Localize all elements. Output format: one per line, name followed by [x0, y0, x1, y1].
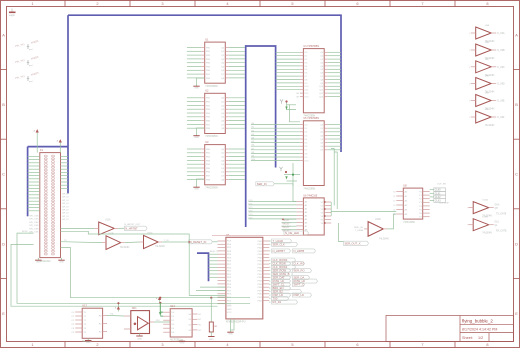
svg-text:74HC4050: 74HC4050: [403, 221, 415, 224]
svg-text:U14: U14: [170, 304, 175, 308]
gate U11B buffer: [102, 233, 130, 249]
svg-text:GP_IO: GP_IO: [62, 206, 69, 208]
svg-text:RXI: RXI: [156, 320, 160, 322]
wire long net A: [17, 231, 250, 303]
svg-text:U9D: U9D: [485, 76, 490, 78]
IC U4 74HC595: [276, 45, 341, 118]
bus ABUS left: [28, 15, 68, 216]
svg-text:U9F: U9F: [485, 109, 490, 111]
svg-text:GND: GND: [227, 309, 232, 311]
ground U7: [227, 330, 233, 336]
svg-text:GP_IO: GP_IO: [62, 216, 69, 218]
junction U14 feed: [159, 302, 163, 317]
svg-text:GND: GND: [137, 339, 142, 341]
svg-text:O_U9F: O_U9F: [497, 117, 505, 119]
svg-text:N_HRTBT_OUT: N_HRTBT_OUT: [124, 224, 141, 226]
wire U4 to U5 link: [280, 99, 300, 122]
svg-text:O_U9C: O_U9C: [497, 67, 505, 69]
wire X1 to U11A: [61, 227, 95, 229]
svg-text:N_HRTBT: N_HRTBT: [273, 249, 286, 253]
wire U1 gnd: [197, 78, 205, 84]
svg-text:SER_CLK: SER_CLK: [273, 242, 285, 246]
svg-text:8: 8: [486, 1, 488, 6]
svg-text:T_IN: T_IN: [164, 240, 169, 242]
svg-text:VCC: VCC: [227, 312, 232, 314]
connector X1 DIN41612: [40, 148, 61, 263]
net flag TX0: [269, 297, 288, 301]
svg-text:GP_IO: GP_IO: [62, 203, 69, 205]
svg-text:GND: GND: [194, 88, 199, 90]
svg-text:GP_IO: GP_IO: [62, 219, 69, 221]
svg-text:T_DATA: T_DATA: [355, 229, 364, 232]
svg-text:GH0: GH0: [495, 204, 500, 206]
IC U2 74HC595: [187, 89, 245, 138]
svg-text:GND: GND: [59, 262, 64, 264]
svg-text:SER_OUT_X: SER_OUT_X: [345, 241, 361, 245]
net flag T_LOAD: [269, 239, 291, 243]
bus CBUS middle: [246, 46, 276, 227]
wire long net B: [11, 244, 218, 306]
svg-text:GND: GND: [227, 306, 232, 308]
svg-text:N_RESET_IN: N_RESET_IN: [190, 240, 207, 244]
svg-text:GND: GND: [86, 342, 91, 344]
net labels X1 left lower pins: [29, 216, 39, 234]
net flag N_HRTBT_OUT: [269, 249, 315, 253]
supply +A right: [57, 139, 62, 153]
svg-text:74LS04N: 74LS04N: [155, 246, 165, 248]
svg-text:E: E: [2, 311, 5, 316]
wire U7 ground: [231, 319, 235, 330]
wire stub rows: [196, 287, 226, 290]
svg-text:ATMEGA328P-PU: ATMEGA328P-PU: [226, 321, 246, 324]
wire U3 gnd: [197, 179, 205, 185]
ground U1: [193, 84, 199, 90]
svg-text:U10B: U10B: [482, 217, 488, 219]
net flag U8 out2: [430, 192, 446, 196]
junction cluster below U5: [279, 163, 300, 186]
svg-text:U12: U12: [82, 304, 87, 308]
gate U9C inverter: [469, 59, 505, 77]
wire SER line U6 to U8: [331, 210, 396, 212]
wire bundle U6 outputs: [331, 149, 344, 242]
svg-text:Sheet:: Sheet:: [462, 336, 473, 340]
net flag U8 out3: [430, 195, 446, 199]
ground U13: [136, 334, 142, 341]
svg-text:U6 74HC165: U6 74HC165: [303, 194, 317, 197]
svg-text:SPI_CSX: SPI_CSX: [29, 219, 39, 221]
supply +5V U13: [115, 302, 120, 311]
svg-text:SPI_CSX: SPI_CSX: [29, 228, 39, 230]
net flag SER_OUT: [344, 241, 369, 245]
svg-text:A: A: [2, 33, 5, 38]
svg-text:C: C: [2, 172, 5, 177]
svg-text:AD[0..7]: AD[0..7]: [210, 250, 218, 253]
svg-text:6: 6: [356, 1, 358, 6]
wire bundle data lines to U6: [249, 200, 297, 220]
net flag U8 out4: [430, 199, 446, 203]
wire X1 to U11B input: [61, 240, 103, 243]
svg-text:GP_IO: GP_IO: [62, 213, 69, 215]
svg-text:U7: U7: [226, 233, 230, 237]
svg-text:A: A: [515, 33, 518, 38]
svg-text:flying_bubble_2: flying_bubble_2: [462, 318, 493, 323]
svg-text:N_HRTB: N_HRTB: [294, 249, 305, 253]
IC U8 74HC4050: [393, 184, 429, 224]
net labels U6 lower pins: [282, 218, 297, 232]
svg-text:5: 5: [291, 1, 293, 6]
svg-text:GND: GND: [228, 334, 233, 336]
wire long net C: [61, 248, 251, 298]
gate U11D inverter: [354, 219, 389, 240]
wire bundle X1 right pins to bus: [61, 156, 69, 188]
net flag SER_ROW_A: [269, 269, 311, 273]
ground U3: [193, 185, 199, 191]
gate U11C buffer: [140, 233, 165, 249]
wire U13 to U14: [154, 320, 170, 322]
svg-text:GP_IO: GP_IO: [62, 210, 69, 212]
wire bundle bus to U7: [209, 250, 219, 277]
wire U11C out to drop: [162, 241, 190, 243]
svg-text:74HC595N: 74HC595N: [303, 187, 315, 190]
net label U8 aux: [437, 184, 450, 205]
svg-text:OUT_EN: OUT_EN: [437, 184, 446, 186]
svg-text:U9B: U9B: [485, 42, 490, 44]
svg-text:7: 7: [421, 342, 423, 347]
net flag RX_D1: [269, 300, 297, 304]
IC U3 74HC595: [187, 140, 245, 189]
svg-text:GND: GND: [36, 262, 41, 264]
gate U9A inverter: [469, 24, 505, 43]
IC U5 74HC595: [251, 117, 341, 190]
svg-text:1: 1: [31, 1, 33, 6]
IC U6 74HC165: [296, 194, 331, 235]
svg-text:GP_IO: GP_IO: [62, 197, 69, 199]
net label U11C out: [164, 240, 169, 242]
svg-text:GL0: GL0: [495, 222, 500, 224]
ground R1: [208, 332, 214, 341]
svg-text:DIN41612: DIN41612: [40, 260, 51, 263]
svg-text:U9A: U9A: [485, 24, 490, 27]
svg-text:SHFT_C: SHFT_C: [294, 283, 305, 287]
svg-text:U3: U3: [205, 140, 209, 144]
svg-text:U2: U2: [205, 89, 209, 93]
svg-text:D: D: [515, 241, 518, 246]
net flag SER_CLK: [269, 242, 297, 246]
net labels X1 right lower pins: [62, 194, 69, 222]
svg-text:O_U9D: O_U9D: [497, 84, 505, 86]
svg-text:U11D: U11D: [375, 219, 381, 221]
svg-text:74LS04N: 74LS04N: [485, 125, 495, 127]
gate U9E inverter: [469, 93, 505, 111]
svg-text:74LS04N: 74LS04N: [379, 238, 389, 240]
test pad TP1: [15, 39, 40, 51]
svg-text:eagle: eagle: [9, 14, 16, 17]
svg-text:GP_IO: GP_IO: [62, 194, 69, 196]
net flag SHFT_CLK1: [269, 283, 304, 287]
svg-text:TX_GATE: TX_GATE: [496, 213, 507, 216]
svg-text:U1: U1: [205, 38, 209, 42]
svg-text:74LS04N: 74LS04N: [120, 247, 130, 249]
svg-text:74HC595N: 74HC595N: [205, 135, 218, 138]
svg-text:U4 74HC595N: U4 74HC595N: [303, 45, 319, 48]
junction bottom rail: [117, 297, 161, 305]
svg-text:X1: X1: [40, 148, 44, 152]
svg-text:SPI_CSX: SPI_CSX: [29, 225, 39, 227]
svg-text:74HC595N: 74HC595N: [205, 186, 218, 189]
opto-isolator U13: [124, 307, 154, 333]
svg-text:GP_IO: GP_IO: [62, 200, 69, 202]
svg-text:D: D: [2, 241, 5, 246]
svg-text:U9E: U9E: [485, 93, 490, 95]
IC U14 MCP2551: [163, 304, 202, 342]
svg-text:1/2: 1/2: [478, 336, 483, 340]
svg-text:1: 1: [31, 342, 33, 347]
svg-text:5: 5: [291, 342, 293, 347]
svg-text:SER_RO: SER_RO: [294, 269, 305, 273]
svg-text:3: 3: [161, 342, 163, 347]
svg-text:OK1: OK1: [132, 307, 137, 310]
svg-text:N_OE_LED: N_OE_LED: [285, 231, 299, 235]
logo mark: [9, 9, 16, 18]
wire long net D: [61, 231, 226, 295]
net flag U8 out1: [430, 188, 446, 192]
net flag U7 RESET: [189, 240, 218, 244]
ground U12: [85, 338, 91, 344]
test pad TP2: [15, 55, 40, 67]
svg-text:RX_GATE: RX_GATE: [496, 230, 507, 233]
svg-text:DSP_LD: DSP_LD: [294, 293, 305, 297]
svg-text:CLK_RO: CLK_RO: [294, 262, 305, 266]
svg-text:GND: GND: [194, 137, 199, 139]
net flag XTAL: [269, 231, 308, 241]
wire rail pink: [212, 235, 310, 237]
svg-text:O_U9A: O_U9A: [497, 32, 505, 35]
gate U9D inverter: [469, 76, 505, 94]
IC U7 ATMEGA328: [218, 233, 270, 324]
gate U9F inverter: [469, 109, 505, 127]
svg-text:B: B: [2, 102, 5, 107]
net flag SER_DATA0: [269, 276, 309, 280]
net flag CLK_ROW1: [269, 262, 304, 266]
svg-text:RX_D1: RX_D1: [273, 300, 282, 304]
svg-text:O_U9B: O_U9B: [497, 50, 505, 52]
svg-text:N_HRTBT: N_HRTBT: [125, 226, 138, 230]
svg-text:MOSI: MOSI: [22, 231, 28, 233]
net flag SER_B2: [269, 290, 301, 294]
svg-text:3: 3: [161, 1, 163, 6]
gate U11A buffer: [95, 219, 119, 235]
svg-text:GND: GND: [209, 339, 214, 341]
net flag DSP_LD: [269, 293, 311, 297]
bus wire U7 left: [197, 253, 209, 281]
svg-text:pad: pad: [29, 81, 32, 83]
ground below X1 right: [58, 258, 64, 264]
svg-text:U10A: U10A: [482, 199, 488, 202]
svg-text:U8: U8: [403, 184, 407, 188]
svg-text:SER_QH: SER_QH: [354, 227, 363, 229]
svg-text:U5 74HC595N: U5 74HC595N: [303, 117, 319, 120]
test pad TP3: [15, 71, 40, 83]
net flag SER_ROW_B: [269, 272, 292, 276]
svg-text:U11A: U11A: [105, 219, 111, 222]
supply +A left: [34, 129, 39, 153]
wire bundle X1 left pins to bus: [28, 156, 40, 210]
net flag CLK_ROW0: [269, 258, 295, 262]
svg-text:QH: QH: [495, 208, 499, 210]
svg-text:7: 7: [421, 1, 423, 6]
net flag BRD_EN: [269, 286, 290, 290]
wire U11D to U8: [387, 214, 396, 229]
net flag CLK_ROW2: [269, 265, 295, 269]
svg-text:74LS04N: 74LS04N: [482, 233, 492, 235]
svg-text:pad: pad: [29, 65, 32, 67]
svg-text:SER_IN: SER_IN: [257, 182, 267, 186]
svg-text:2: 2: [96, 1, 98, 6]
gate U10A inverter: [467, 199, 506, 218]
svg-text:GND: GND: [194, 189, 199, 191]
ground U14: [179, 339, 185, 345]
net flag SER chain: [256, 182, 297, 202]
svg-text:pad: pad: [29, 49, 32, 51]
supply +5V U14: [156, 297, 161, 302]
bus DBUS top: [68, 15, 341, 152]
svg-text:E: E: [515, 311, 518, 316]
svg-text:CLK_BUF: CLK_BUF: [439, 203, 450, 205]
svg-text:74HC595N: 74HC595N: [205, 85, 218, 88]
svg-text:U9C: U9C: [485, 59, 490, 61]
svg-text:O_U9E: O_U9E: [497, 101, 505, 103]
resistor R1: [209, 297, 218, 332]
wire U2 gnd: [197, 128, 205, 134]
ground U2: [193, 134, 199, 140]
svg-text:C: C: [515, 172, 518, 177]
wire U12 to U13: [107, 313, 124, 316]
svg-text:2: 2: [96, 342, 98, 347]
svg-text:B: B: [515, 102, 518, 107]
IC U12 MAX232: [71, 304, 107, 343]
svg-text:6: 6: [356, 342, 358, 347]
svg-text:GND: GND: [180, 343, 185, 345]
svg-text:SPI_CSX: SPI_CSX: [29, 222, 39, 224]
ground below X1 left: [35, 258, 41, 264]
gate U10B inverter: [467, 217, 507, 235]
svg-text:SPI_CSX: SPI_CSX: [29, 216, 39, 218]
svg-text:8/17/2024 4:14:42 PM: 8/17/2024 4:14:42 PM: [462, 328, 497, 332]
IC U1 74HC595: [187, 38, 245, 88]
gate U9B inverter: [469, 42, 505, 60]
net flag ROW_LD_PIN0: [269, 279, 317, 283]
wire U11B to U11C: [125, 241, 140, 244]
svg-text:8: 8: [486, 342, 488, 347]
net flag U11A out: [118, 224, 147, 230]
